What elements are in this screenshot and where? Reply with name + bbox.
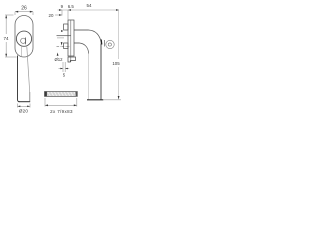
svg-text:Ø20: Ø20 xyxy=(19,109,29,114)
front view rosette plate xyxy=(15,16,33,58)
spindle bar hatched xyxy=(45,92,78,97)
grip side right edge xyxy=(100,44,102,100)
plate middle line xyxy=(70,20,72,62)
svg-text:26: 26 xyxy=(21,5,27,11)
svg-text:Ø12: Ø12 xyxy=(54,57,63,62)
lever neck bottom edge xyxy=(74,42,80,44)
front view knob circle xyxy=(16,31,31,46)
side view rosette plate xyxy=(68,20,74,56)
dim under spindle xyxy=(44,98,46,107)
step line left xyxy=(57,35,71,37)
screw dot xyxy=(61,30,63,32)
lever outer curve xyxy=(89,30,102,44)
dim O12 xyxy=(57,53,59,56)
screw boss top xyxy=(64,24,68,30)
lever neck top edge xyxy=(74,29,89,31)
bend detail circle xyxy=(106,40,114,48)
svg-text:105: 105 xyxy=(112,61,120,66)
dim 5 bottom xyxy=(62,62,64,72)
grip front view left edge xyxy=(18,56,20,102)
grip front view right edge xyxy=(27,47,30,93)
neck line left front xyxy=(21,47,23,57)
grip side left edge xyxy=(88,54,90,100)
svg-text:2x 7/9x83: 2x 7/9x83 xyxy=(50,109,73,114)
svg-text:6.5: 6.5 xyxy=(68,4,75,9)
spindle hole symbol xyxy=(21,38,26,43)
svg-text:5: 5 xyxy=(63,73,66,78)
short tick at bend xyxy=(104,40,106,47)
spindle square end xyxy=(45,92,47,97)
svg-text:9: 9 xyxy=(61,4,64,9)
side plate bottom step xyxy=(68,57,76,62)
svg-text:54: 54 xyxy=(86,3,92,8)
spindle stub side xyxy=(64,43,68,49)
grip front view bottom edge xyxy=(19,101,31,103)
right vertical dim 105 xyxy=(118,10,120,59)
center axis dash-dot xyxy=(57,45,71,47)
grip side bottom xyxy=(87,99,103,101)
svg-text:20: 20 xyxy=(49,13,54,18)
dim O20 under grip xyxy=(17,104,19,108)
svg-text:74: 74 xyxy=(3,36,9,41)
lever inner curve xyxy=(80,43,89,54)
